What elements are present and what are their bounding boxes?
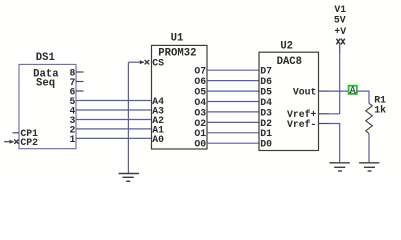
svg-text:Vout: Vout <box>293 87 317 98</box>
wire DS1 pin5 to U1 A4 <box>76 100 152 102</box>
wire O0 to D0 <box>207 142 259 144</box>
wire ground column vertical <box>127 62 129 173</box>
wire O3 to D3 <box>207 111 259 113</box>
DS1 pin 6 <box>70 86 84 97</box>
svg-text:+V: +V <box>334 26 346 37</box>
svg-text:O0: O0 <box>194 139 206 150</box>
wire O4 to D4 <box>207 101 259 103</box>
svg-text:O5: O5 <box>194 87 206 98</box>
U2 pin Vref+ <box>287 109 329 120</box>
wire DS1 pin2 to U1 A1 <box>76 128 152 130</box>
svg-text:O3: O3 <box>194 107 206 118</box>
svg-text:DAC8: DAC8 <box>277 56 302 68</box>
svg-text:Vref-: Vref- <box>287 119 316 130</box>
svg-text:O1: O1 <box>194 128 206 139</box>
PROM U1 box <box>152 45 208 149</box>
svg-text:D1: D1 <box>260 128 272 139</box>
wire DS1 pin3 to U1 A2 <box>76 119 152 121</box>
ground under CS column <box>119 174 139 182</box>
svg-text:1k: 1k <box>374 104 386 115</box>
DS1 pin CP2 with clock source marker <box>4 137 38 148</box>
ground under R1 <box>359 163 379 171</box>
wire O6 to D6 <box>207 80 259 82</box>
DAC U2 box <box>259 52 319 150</box>
wire probe to R1 <box>357 91 369 103</box>
wire DS1 pin1 to U1 A0 <box>76 137 152 139</box>
wire O1 to D1 <box>207 132 259 134</box>
label Data Seq <box>33 68 59 89</box>
svg-text:U2: U2 <box>280 40 293 52</box>
wire R1 to ground <box>368 134 370 162</box>
svg-text:CS: CS <box>152 58 164 69</box>
wire DS1 pin4 to U1 A3 <box>76 109 152 111</box>
svg-text:D0: D0 <box>260 139 272 150</box>
svg-text:O6: O6 <box>194 76 206 87</box>
svg-text:D2: D2 <box>260 118 272 129</box>
svg-text:DS1: DS1 <box>36 52 55 64</box>
wire O2 to D2 <box>207 121 259 123</box>
voltage probe A (green test point) <box>349 86 357 94</box>
wire CS to ground column <box>128 61 144 63</box>
svg-text:D3: D3 <box>260 107 272 118</box>
DS1 pin CP1 <box>13 128 39 139</box>
svg-text:D4: D4 <box>260 97 272 108</box>
svg-text:D6: D6 <box>260 76 272 87</box>
voltage source V1 labels <box>334 4 346 37</box>
data sequencer DS1 box <box>19 64 76 148</box>
svg-text:O4: O4 <box>194 97 206 108</box>
svg-text:U1: U1 <box>171 32 184 44</box>
wire Vout to probe <box>329 90 348 92</box>
svg-text:O7: O7 <box>194 66 206 77</box>
svg-text:A0: A0 <box>152 134 164 145</box>
wire V1 down to Vref+ <box>339 45 341 53</box>
DS1 pin 7 <box>70 77 84 88</box>
svg-text:CP2: CP2 <box>20 137 38 148</box>
resistor R1 zigzag <box>366 103 373 133</box>
V1 supply arrow symbol <box>336 39 344 45</box>
svg-text:V1: V1 <box>334 4 346 15</box>
wire Vref- to ground <box>329 124 340 163</box>
CS net marker arrow and x <box>140 60 149 64</box>
svg-text:D7: D7 <box>260 66 272 77</box>
DS1 pin 8 <box>70 67 84 78</box>
svg-text:Seq: Seq <box>36 77 55 89</box>
svg-text:O2: O2 <box>194 118 206 129</box>
wire O5 to D5 <box>207 90 259 92</box>
wire O7 to D7 <box>207 69 259 71</box>
U2 pin Vref- <box>287 119 329 130</box>
svg-text:D5: D5 <box>260 87 272 98</box>
U2 pin Vout <box>293 87 329 98</box>
svg-text:1: 1 <box>70 134 76 145</box>
ground under Vref- <box>329 163 349 171</box>
svg-text:5V: 5V <box>334 15 346 26</box>
